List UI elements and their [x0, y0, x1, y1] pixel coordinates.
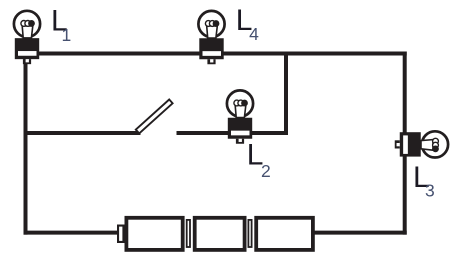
battery cell 3 [256, 218, 313, 250]
svg-text:1: 1 [62, 25, 72, 45]
switch S1 (open blade) [136, 100, 173, 134]
lamp L4 (on top wire) [198, 11, 224, 64]
svg-text:4: 4 [249, 24, 259, 44]
wire: middle branch left segment (to switch) [24, 131, 141, 135]
battery nub between cell 1 and 2 [187, 220, 190, 247]
wire: left vertical (L1 down to bottom-left corner) [24, 58, 28, 235]
wire: bottom left segment (corner to battery) [24, 231, 119, 235]
battery nub between cell 2 and 3 [248, 220, 251, 247]
svg-text:3: 3 [425, 181, 435, 201]
label L4 [236, 4, 259, 44]
lamp L2 (on middle branch) [227, 90, 253, 143]
svg-text:2: 2 [261, 161, 271, 181]
battery left terminal nub [118, 226, 123, 242]
battery cell 2 [195, 218, 245, 250]
wire: middle branch right segment (switch to L2 to riser) [177, 131, 289, 135]
battery cell 1 [126, 218, 182, 250]
wire: vertical riser from middle branch to top wire [284, 52, 288, 136]
wire: top horizontal (L1 base to top-right corner) [18, 52, 407, 56]
label L2 [247, 139, 271, 182]
wire: right vertical (through L3) [403, 52, 407, 235]
wire: bottom right segment (battery to bottom-right corner) [313, 231, 407, 235]
label L3 [413, 161, 435, 201]
lamp L1 (top-left corner) [14, 11, 40, 64]
lamp L3 (on right vertical wire, bulb pointing right) [395, 131, 448, 157]
label L1 [51, 5, 71, 46]
